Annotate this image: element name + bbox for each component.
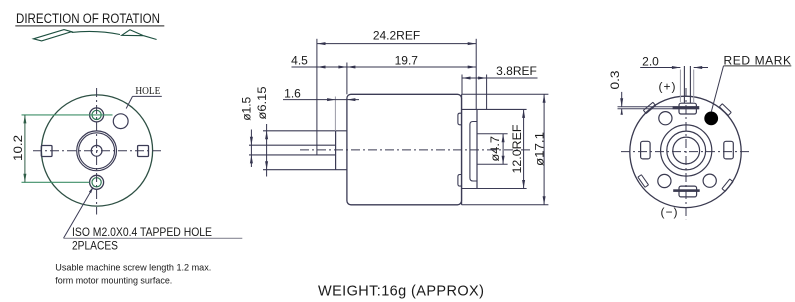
svg-text:3.8REF: 3.8REF	[496, 64, 537, 78]
svg-text:12.0REF: 12.0REF	[510, 125, 524, 174]
svg-text:form motor mounting surface.: form motor mounting surface.	[55, 275, 172, 286]
svg-text:(−): (−)	[661, 205, 679, 219]
svg-text:ø6.15: ø6.15	[255, 86, 269, 119]
svg-text:WEIGHT:16g (APPROX): WEIGHT:16g (APPROX)	[318, 283, 484, 299]
svg-text:DIRECTION OF ROTATION: DIRECTION OF ROTATION	[16, 11, 160, 26]
svg-text:2PLACES: 2PLACES	[72, 239, 118, 253]
svg-text:1.6: 1.6	[284, 86, 301, 100]
svg-text:10.2: 10.2	[11, 135, 25, 161]
svg-text:(+): (+)	[659, 80, 677, 94]
svg-text:ø4.7: ø4.7	[488, 136, 502, 162]
svg-text:Usable machine screw length 1.: Usable machine screw length 1.2 max.	[55, 262, 211, 273]
svg-text:24.2REF: 24.2REF	[373, 29, 420, 43]
svg-text:ø17.1: ø17.1	[533, 132, 547, 166]
svg-text:4.5: 4.5	[291, 53, 308, 67]
svg-text:ø1.5: ø1.5	[240, 96, 254, 120]
svg-text:HOLE: HOLE	[135, 85, 160, 97]
svg-text:ISO M2.0X0.4 TAPPED HOLE: ISO M2.0X0.4 TAPPED HOLE	[72, 225, 212, 239]
svg-text:19.7: 19.7	[395, 53, 419, 67]
svg-text:2.0: 2.0	[642, 54, 659, 68]
svg-text:0.3: 0.3	[608, 70, 622, 89]
